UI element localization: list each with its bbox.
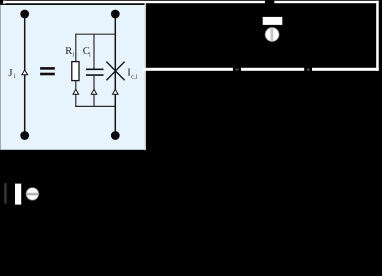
resistor R_i: [72, 62, 79, 81]
wire: resistor branch upper: [75, 34, 77, 62]
bottom electrode wire segment 2: [241, 68, 304, 71]
wire: capacitor branch upper: [93, 34, 95, 68]
current arrow on J_i branch: [22, 70, 28, 75]
svg-text:c,i: c,i: [131, 74, 138, 81]
inset box (equivalent-circuit definition): [0, 3, 144, 150]
svg-text:R: R: [65, 46, 72, 57]
svg-text:i: i: [89, 51, 91, 59]
top electrode wire left end nub: [3, 1, 5, 4]
top electrode wire (white), left segment: [3, 1, 265, 3]
wire: top rail: [75, 33, 115, 35]
bottom electrode wire segment 1: [144, 68, 233, 71]
svg-text:J: J: [8, 68, 12, 79]
junction J1 body (circle with divider): [265, 27, 279, 41]
wire: main junction branch: [114, 14, 116, 136]
node bottom-left: [20, 131, 29, 140]
wire: J_i branch: [24, 14, 26, 136]
faint left electrode remnant: [4, 183, 6, 203]
faint junction trace in gap 1: [236, 69, 239, 71]
top electrode wire (white), right segment: [274, 1, 378, 3]
ideal junction cross I_c,i: [106, 62, 124, 81]
inset box right white edge: [145, 2, 146, 150]
junction J2 side plate (white bar): [15, 184, 21, 205]
equals sign: [40, 67, 55, 70]
junction J1 top plate (white rect): [263, 17, 283, 25]
svg-text:i: i: [72, 51, 74, 59]
node top-right: [111, 10, 120, 19]
current arrow on resistor branch: [73, 89, 79, 94]
node top-left: [20, 10, 29, 19]
current arrow on junction branch: [113, 89, 119, 94]
bottom electrode wire segment 3: [312, 68, 379, 71]
faint junction trace in gap 2: [307, 69, 310, 71]
current arrow on capacitor branch: [91, 89, 97, 94]
node bottom-right: [111, 131, 120, 140]
right electrode wire (white vertical): [376, 1, 379, 71]
inset box top border: [0, 3, 144, 5]
junction J2 body (circle with divider): [26, 188, 39, 201]
wire: bottom rail: [75, 105, 115, 107]
svg-text:i: i: [14, 72, 16, 80]
capacitor C_i plates: [86, 68, 104, 70]
wire: resistor branch lower: [75, 81, 77, 107]
wire: capacitor branch lower: [93, 76, 95, 107]
